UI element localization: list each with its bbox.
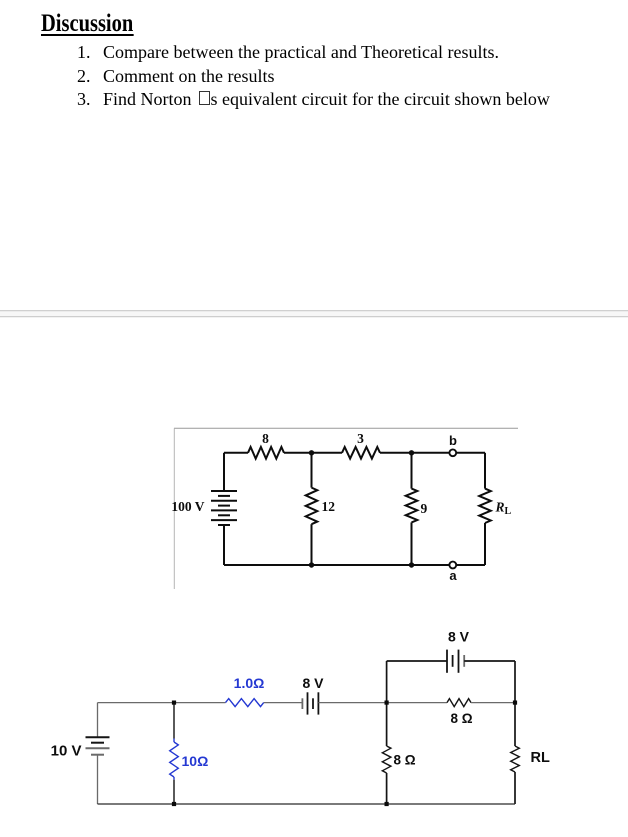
junction node: right top [513,701,517,705]
wire: top between R8 and R3 [284,452,342,454]
svg-text:RL: RL [531,750,550,766]
wire: RL branch bottom lead [514,772,516,804]
scan image border (top and left) [174,428,518,589]
wire: vertical 8ohm branch top lead [386,703,388,746]
resistor RL (vertical, circuit 2) [511,746,520,772]
svg-text:10Ω: 10Ω [182,753,209,769]
svg-text:12: 12 [322,499,336,514]
wire: top from terminal b to right corner [456,452,485,454]
list item 1 number [77,42,91,63]
terminal b (open circle) [449,449,456,456]
heading Discussion [41,10,133,38]
wire: top-left segment [224,452,248,454]
svg-text:8 Ω: 8 Ω [394,753,416,768]
junction node (bottom, 9) [409,562,414,567]
resistor 8 (horizontal) [248,447,284,459]
battery 100 V (8 plates) [211,491,237,525]
svg-text:100 V: 100 V [171,499,204,514]
wire: c2 middle wire from node to 8ohm [387,702,447,704]
svg-text:8 Ω: 8 Ω [450,711,472,726]
wire: c2 bottom wire [98,803,516,805]
svg-text:a: a [449,568,457,583]
wire: middle branch top lead [311,453,313,488]
list item 1 text [103,42,499,63]
battery 8 V (series, horizontal, 4 plates) [302,692,318,714]
wire: top loop top-right segment [464,660,515,662]
wire: c2 left vertical top (10V top lead) [97,703,99,738]
wire: bottom from terminal a to right corner [456,564,485,566]
junction node (top, 12) [309,450,314,455]
wire: top loop left vertical [386,661,388,703]
battery 10 V (4 plates) [86,737,110,755]
resistor 10 ohm (vertical, blue) [170,742,179,777]
wire: c2 middle wire from 8ohm to right node [471,702,515,704]
terminal a (open circle) [449,562,456,569]
resistor 8 ohm (horizontal, in parallel with top 8V) [447,699,471,707]
wire: 10ohm branch bottom lead [173,780,175,804]
battery 8 V (top loop, 4 plates) [447,650,464,673]
wire: middle branch bottom lead [311,524,313,565]
svg-text:1.0Ω: 1.0Ω [234,675,265,691]
wire: 10ohm branch top lead [173,703,175,739]
resistor 1.0 ohm (horizontal, blue) [226,699,264,707]
junction node (bottom, 12) [309,562,314,567]
wire: left branch bottom (source bottom lead) [223,525,225,565]
list item 3 text [103,89,550,110]
junction node: 10ohm top [172,701,176,705]
list item 2 text [103,66,274,87]
list item 3 number [77,89,91,110]
svg-text:9: 9 [421,501,428,516]
resistor 8 ohm (vertical) [382,746,391,773]
wire: c2 top wire left segment [98,702,226,704]
resistor RL (vertical) [479,489,491,523]
junction node: middle top [385,701,389,705]
resistor 3 (horizontal) [342,447,380,459]
junction node: middle bottom [385,802,389,806]
wire: c2 top wire from 8V battery to node [318,702,386,704]
wire: RL branch bottom lead [484,523,486,565]
svg-text:8: 8 [262,431,269,446]
wire: c2 top wire between 1.0ohm and 8V battery [264,702,302,704]
wire: top loop top-left segment [387,660,447,662]
wire: R9 branch top lead [411,453,413,489]
wire: left branch top (source top lead) [223,453,225,491]
svg-text:RL: RL [495,500,512,518]
junction node (top, 9) [409,450,414,455]
list item 2 number [77,66,91,87]
svg-text:3: 3 [357,431,364,446]
resistor 12 (vertical) [306,488,318,525]
resistor 9 (vertical) [406,489,418,523]
svg-text:8 V: 8 V [302,675,324,691]
svg-text:10 V: 10 V [51,743,82,760]
svg-text:b: b [449,433,457,448]
wire: c2 left vertical bottom (10V bottom lead) [97,755,99,804]
page divider band [0,311,628,317]
wire: RL branch top lead [484,453,486,489]
wire: bottom from left corner to terminal a [224,564,449,566]
wire: top from R3 to terminal b [380,452,449,454]
svg-text:8 V: 8 V [448,629,470,645]
wire: top loop right vertical [514,661,516,703]
junction node: 10ohm bottom [172,802,176,806]
wire: R9 branch bottom lead [411,522,413,565]
wire: vertical 8ohm branch bottom lead [386,773,388,804]
wire: RL branch top lead [514,703,516,746]
